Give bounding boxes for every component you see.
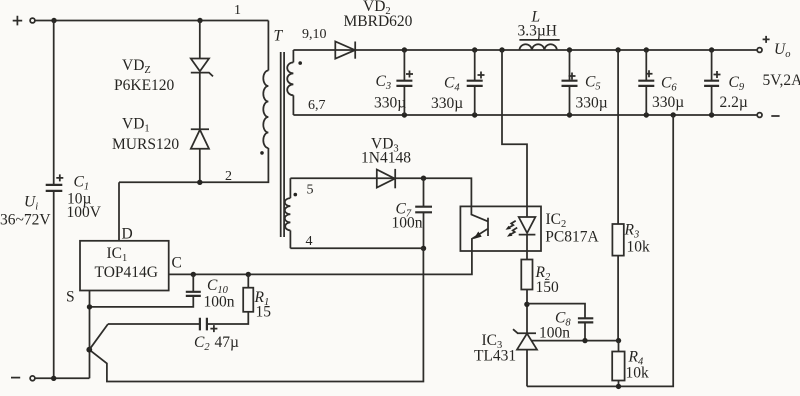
transformer secondary winding 9,10-6,7: [287, 27, 326, 115]
svg-text:1: 1: [234, 3, 241, 18]
wire top rail from + to transformer pin1: [35, 20, 268, 22]
capacitor C4 330u: [431, 50, 485, 115]
svg-text:P6KE120: P6KE120: [114, 77, 175, 94]
wire C pin rail to opto emitter: [169, 251, 472, 274]
wire clamp branch upper: [199, 21, 201, 59]
diode VD2 MBRD620: [335, 0, 412, 59]
wire bias winding top rail with collector drop: [290, 178, 471, 206]
svg-text:10k: 10k: [627, 239, 651, 256]
opto-coupler IC2 PC817A box: [460, 206, 599, 251]
opto phototransistor: [471, 206, 488, 251]
capacitor C2 47u: [108, 318, 239, 353]
capacitor C5 330u: [562, 50, 608, 115]
node junctions on top output rail: [402, 47, 407, 52]
svg-text:15: 15: [256, 304, 272, 321]
resistor R2 150: [521, 251, 559, 333]
IC1 TOP414G box: [66, 226, 182, 306]
input minus terminal: [11, 376, 35, 381]
opto light arrows: [506, 221, 518, 237]
node junction S lower: [86, 347, 92, 353]
wire TL431 ref line: [531, 340, 618, 342]
wire S pin down: [89, 291, 91, 379]
opto LED: [519, 206, 536, 251]
diode VD1 MURS120: [112, 116, 209, 154]
node junction C8 bottom: [582, 338, 587, 343]
resistor R3 10k: [612, 50, 650, 341]
node junction C7 bottom / winding4: [421, 246, 426, 251]
input plus terminal: [13, 16, 35, 26]
svg-text:1N4148: 1N4148: [361, 150, 411, 167]
svg-text:4: 4: [306, 234, 313, 249]
node junction top rail / clamp branch: [197, 18, 202, 23]
svg-text:10k: 10k: [626, 365, 650, 382]
svg-text:6,7: 6,7: [308, 98, 326, 113]
node junction R1 top: [246, 272, 251, 277]
svg-text:9,10: 9,10: [302, 27, 327, 42]
svg-text:100n: 100n: [539, 325, 570, 342]
node junction top rail / left rail: [51, 18, 56, 23]
node junction S / C10 return: [87, 304, 92, 309]
svg-text:100n: 100n: [204, 294, 235, 311]
wire secondary top rail: [293, 49, 757, 51]
svg-text:MBRD620: MBRD620: [344, 13, 413, 30]
wire LED feed from pre-inductor node: [502, 50, 527, 206]
svg-text:150: 150: [536, 279, 560, 296]
inductor L 3.3uH: [518, 9, 560, 51]
capacitor C7 100n: [392, 178, 433, 248]
capacitor C9 2.2u: [704, 50, 748, 115]
wire diagonal S node to C2 line: [89, 324, 108, 350]
transformer T primary winding: [263, 21, 283, 149]
output minus terminal: [757, 113, 779, 118]
wire bottom left rail: [35, 377, 89, 379]
capacitor C3 330u: [374, 50, 413, 115]
svg-text:D: D: [122, 226, 133, 243]
svg-text:3.3µH: 3.3µH: [518, 23, 558, 40]
wire D pin: [118, 182, 120, 241]
svg-text:5V,2A: 5V,2A: [763, 72, 800, 89]
svg-text:MURS120: MURS120: [112, 136, 179, 153]
svg-text:C: C: [172, 255, 182, 272]
svg-text:2: 2: [225, 169, 232, 184]
node junction C7 top: [421, 176, 426, 181]
capacitor C10 100n: [90, 274, 235, 310]
svg-text:330µ: 330µ: [374, 95, 406, 112]
node junction C10 top: [191, 272, 196, 277]
svg-text:100V: 100V: [67, 204, 102, 221]
secondary phase dot: [298, 61, 302, 65]
svg-text:330µ: 330µ: [431, 95, 463, 112]
svg-text:PC817A: PC817A: [545, 229, 599, 246]
svg-text:5: 5: [307, 183, 314, 198]
node junctions on bottom output rail: [402, 112, 407, 117]
capacitor C8 100n branch: [527, 304, 593, 342]
primary phase dot: [260, 151, 264, 155]
wire node 2 rail: [119, 148, 268, 182]
node junction node2: [197, 180, 202, 185]
capacitor C6 330u: [638, 50, 684, 115]
wire right return output minus to bottom: [527, 115, 673, 386]
svg-text:36~72V: 36~72V: [0, 212, 51, 229]
wire between VDz and VD1: [199, 73, 201, 130]
node junction R2 bottom / TL431 cathode: [524, 302, 529, 307]
wire primary ground return from S node diagonal to C7 bottom: [89, 248, 423, 381]
shunt regulator IC3 TL431: [474, 329, 537, 386]
wire left input rail upper: [53, 21, 55, 185]
node junction R3/R4 divider: [616, 338, 621, 343]
capacitor C1: [46, 174, 102, 222]
transformer core: [281, 52, 284, 237]
transformer bias winding 5-4: [285, 178, 314, 249]
zener VDz P6KE120: [114, 57, 213, 94]
svg-text:T: T: [274, 28, 284, 45]
wire winding pin4 to C7 bottom: [290, 247, 423, 249]
svg-text:S: S: [66, 289, 75, 306]
label Ui input voltage: [0, 194, 51, 229]
svg-text:TOP414G: TOP414G: [95, 264, 158, 281]
output plus terminal: [757, 36, 800, 89]
wire secondary bottom rail: [293, 114, 757, 116]
svg-text:330µ: 330µ: [652, 94, 684, 111]
wire left input rail lower: [53, 192, 55, 379]
node junction bottom-left: [51, 376, 56, 381]
svg-text:TL431: TL431: [474, 348, 516, 365]
svg-text:47µ: 47µ: [215, 334, 240, 351]
node junction R4 bottom: [616, 384, 621, 389]
wire clamp branch lower: [199, 149, 201, 183]
resistor R1 15: [207, 274, 271, 324]
svg-text:2.2µ: 2.2µ: [720, 94, 748, 111]
svg-text:330µ: 330µ: [576, 95, 608, 112]
diode VD3 1N4148: [361, 136, 411, 189]
svg-text:100n: 100n: [392, 215, 423, 232]
bias winding phase dot: [294, 193, 298, 197]
resistor R4 10k: [612, 341, 649, 387]
